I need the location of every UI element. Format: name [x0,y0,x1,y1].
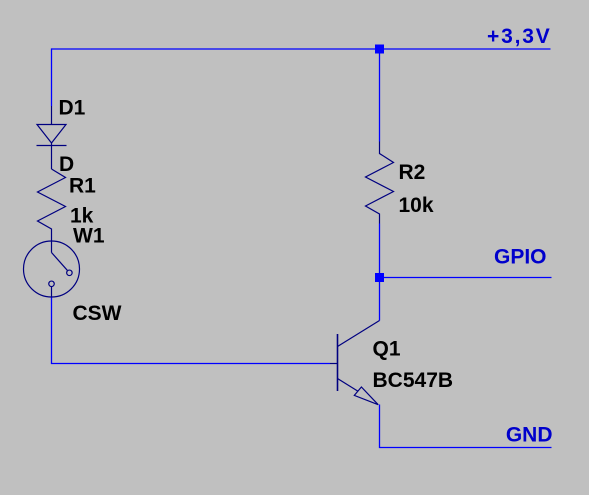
svg-text:BC547B: BC547B [373,369,454,392]
switch W1 [24,241,80,297]
diode D1 [37,106,67,169]
junction at +3,3V rail [375,45,384,54]
junction at GPIO [375,273,384,282]
svg-text:+3,3V: +3,3V [487,25,551,48]
wire top junction down to R2 [379,48,381,141]
svg-text:CSW: CSW [73,302,122,325]
resistor R1 [38,169,66,253]
svg-text:R2: R2 [399,161,426,184]
transistor Q1 [330,321,380,405]
resistor R2 [366,142,394,224]
wire left drop from top rail to D1 [51,48,53,106]
svg-text:W1: W1 [73,225,105,248]
wire emitter to GND [380,405,552,448]
wire R2 bottom through GPIO junction to collector [379,224,381,321]
svg-text:10k: 10k [399,194,434,217]
svg-text:Q1: Q1 [373,338,401,361]
svg-text:GPIO: GPIO [494,246,547,269]
wire top rail +3,3V [52,48,551,50]
svg-text:GND: GND [506,424,553,447]
svg-text:D1: D1 [59,97,86,120]
wire GPIO [380,277,552,279]
svg-text:R1: R1 [69,175,96,198]
svg-text:D: D [59,153,74,176]
wire switch bottom to base run [52,297,331,364]
